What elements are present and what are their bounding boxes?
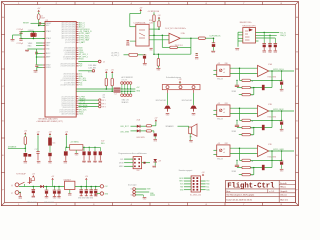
gyro sensor nick inner marks: [219, 109, 222, 112]
ground roll out cap: [280, 88, 284, 90]
svg-text:MAX4617CUE+: MAX4617CUE+: [240, 21, 252, 24]
gyro sensor roll inner marks: [219, 69, 222, 72]
ground C18: [32, 193, 34, 196]
gyro sensor gier body: [217, 145, 230, 157]
junction LDO input: [66, 147, 68, 149]
frame column ticks bottom: [37, 203, 39, 206]
wire crystal bottom stub: [32, 37, 34, 39]
resistor R16 track filter: [129, 53, 138, 56]
svg-text:AREF: AREF: [46, 56, 51, 59]
wire roll sensor to opamp minus: [230, 67, 258, 69]
IC4 right pin wire 2: [256, 34, 277, 36]
svg-text:R32: R32: [225, 143, 228, 145]
IC1 ATMEGA644 body: [45, 22, 76, 118]
bolt bar pad 2: [179, 86, 182, 89]
wire switch node: [24, 184, 26, 187]
wire nick feedback left: [240, 119, 242, 121]
wire roll row3 right: [250, 94, 253, 96]
svg-text:(INT1/TXD1)PD3: (INT1/TXD1)PD3: [64, 76, 76, 78]
power out GND pad: [100, 192, 103, 195]
svg-text:RESET: RESET: [23, 23, 30, 25]
svg-text:(SCL/PCINT16)PC0: (SCL/PCINT16)PC0: [62, 96, 76, 98]
header SV1 right wires: [200, 181, 205, 190]
wire C1-C2 vertical: [20, 32, 22, 39]
wire roll row2 right: [250, 87, 272, 89]
frame outer border: [1, 2, 298, 206]
svg-text:(OC0B/SS)PB4: (OC0B/SS)PB4: [65, 52, 76, 54]
ACC pad stubs bottom: [121, 91, 123, 94]
+5V arrow out: [85, 178, 87, 180]
+5V arrow LEDs: [155, 119, 157, 121]
diode D1: [40, 185, 43, 188]
Druckregler pad 1: [133, 188, 136, 191]
resistor R22 to gnd: [157, 59, 159, 67]
IC4 right pin wire 1: [256, 32, 280, 34]
ground R22: [156, 67, 160, 69]
testpoint J4 circle: [98, 60, 101, 63]
capacitor C2: [19, 38, 22, 40]
svg-text:VREF: VREF: [232, 131, 237, 133]
IC1 left-side pin stubs: [43, 23, 45, 67]
svg-text:LED_ROT: LED_ROT: [120, 126, 129, 128]
svg-text:Datum:05.01.2008 11:23:20: Datum:05.01.2008 11:23:20: [226, 199, 252, 202]
+5V arrow R12: [111, 71, 113, 73]
wire bolt +5V stub: [179, 83, 181, 85]
+5V arrow R11: [105, 71, 107, 73]
pullup resistor R11: [105, 78, 107, 86]
svg-text:ENC-03: ENC-03: [217, 158, 223, 160]
wire +5V pressure down: [140, 11, 142, 13]
wire power bus lower: [76, 90, 113, 92]
svg-text:J4: J4: [103, 61, 105, 63]
LED2 green: [137, 129, 140, 132]
speaker symbol: [189, 127, 192, 134]
ACC pad row bottom: [121, 94, 124, 97]
testpoint SERVO circle: [92, 70, 94, 72]
resistor roll R40c: [242, 93, 251, 95]
svg-text:MOSI: MOSI: [179, 178, 184, 180]
svg-text:Von Microkopter.1.33,Hauptplat: Von Microkopter.1.33,Hauptplat: [226, 194, 254, 197]
wire track filter out: [138, 54, 145, 56]
svg-text:22k: 22k: [103, 97, 106, 99]
svg-text:C2 22pF: C2 22pF: [17, 43, 23, 45]
pressure sensor MPX4115 body: [136, 24, 149, 46]
feedback resistor gier R42a: [242, 159, 251, 161]
frame corner bevels: [1, 2, 4, 5]
capacitor C15 electrolytic: [48, 138, 52, 146]
svg-text:L4: L4: [115, 94, 117, 96]
ground bolt left: [166, 112, 170, 114]
junction VREF rail pin2: [153, 35, 155, 37]
svg-text:SDA_N: SDA_N: [280, 34, 286, 37]
capacitor nick hp: [235, 124, 239, 126]
svg-text:GYRO_NICK: GYRO_NICK: [273, 109, 284, 111]
svg-text:(OC3B/SCK)PB7: (OC3B/SCK)PB7: [64, 59, 76, 61]
wire VCC horizontal: [39, 25, 45, 27]
wire gier feedback right: [250, 159, 281, 161]
header SV2 left labels: [119, 159, 124, 168]
wire +5V pressure horiz: [130, 12, 141, 14]
+5V arrow T1: [32, 175, 34, 177]
junction VREF rail bottom: [153, 53, 155, 55]
wire gier row3 left: [239, 174, 242, 176]
IC1 right-side pin stubs: [76, 23, 78, 114]
ground LED row: [153, 138, 157, 140]
junction roll output: [281, 70, 283, 72]
pressure sensor inner marks: [139, 29, 145, 31]
wire bus to pads upper: [120, 88, 135, 90]
+5V arrow header: [202, 174, 204, 176]
wire Druckregler gnd: [142, 195, 144, 197]
bolt bar body: [162, 85, 200, 90]
gyro sensor gier inner marks: [219, 149, 222, 152]
wire drop cap C23: [274, 38, 276, 43]
junctions on pad bus: [121, 88, 122, 89]
junction cap C18: [33, 186, 35, 188]
svg-text:SCL: SCL: [206, 186, 209, 188]
svg-text:X Y Z T: X Y Z T: [122, 79, 128, 81]
header SV2 right component: [143, 162, 145, 164]
ground C17: [37, 160, 41, 162]
capacitor bank C26: [89, 147, 90, 148]
pressure pin1 wire: [149, 28, 159, 30]
wire bolt right down: [193, 90, 195, 93]
+5V arrow pressure: [140, 9, 142, 11]
wire bus to R22: [157, 54, 159, 58]
svg-text:4k7: 4k7: [251, 128, 254, 130]
testpoint RESET circle: [39, 22, 41, 24]
wire +5V pressure vert: [129, 13, 131, 26]
svg-text:Erweiterungsport: Erweiterungsport: [179, 169, 193, 172]
ground LED D2: [152, 165, 156, 167]
wire roll row3 left: [239, 94, 242, 96]
svg-text:SP 1: SP 1: [102, 100, 105, 102]
svg-text:5,1 MPX4115A: 5,1 MPX4115A: [133, 21, 146, 24]
svg-text:RXD0: RXD0: [79, 59, 84, 61]
wire R11 top: [105, 73, 107, 78]
ground C21b: [58, 194, 60, 197]
capacitor roll mid blob: [262, 85, 265, 90]
svg-text:(TDI/PCINT21)PC5: (TDI/PCINT21)PC5: [62, 107, 75, 109]
LED D2 bottom: [153, 159, 157, 162]
wire gier sensor to opamp minus: [230, 147, 258, 149]
svg-text:SPEAKER: SPEAKER: [166, 125, 175, 128]
header SV1 pads: [193, 177, 199, 190]
+5V arrow C15: [49, 133, 51, 135]
svg-text:GND3: GND3: [46, 67, 51, 69]
wire GND pad: [97, 193, 101, 195]
capacitor C19: [45, 189, 49, 191]
junction R11 bus: [106, 88, 108, 90]
gyro sensor nick body: [217, 105, 230, 117]
resistor R14: [146, 130, 151, 132]
capacitor C3 AVCC: [35, 51, 38, 53]
wire nick feedback right: [250, 119, 281, 121]
junction VCC: [38, 25, 40, 27]
header SV2 body: [133, 157, 142, 169]
+5V arrow R15 column: [24, 132, 26, 134]
svg-text:+5V (REG): +5V (REG): [70, 141, 79, 143]
wire roll feedback left: [240, 79, 242, 81]
ACC pad stubs top: [121, 84, 123, 89]
ground C19: [46, 194, 48, 197]
svg-text:L1: L1: [41, 15, 43, 17]
wire roll sensor to opamp plus: [230, 73, 258, 75]
resistor R20 1M: [158, 21, 160, 27]
output resistor R23: [198, 37, 205, 39]
wire gier output: [269, 150, 294, 152]
resistor gier R42b: [242, 166, 251, 168]
svg-text:MOSI: MOSI: [119, 162, 124, 164]
svg-text:Druckregler: Druckregler: [128, 183, 137, 186]
wire VREF rail vertical: [153, 12, 155, 15]
ground C30: [144, 59, 146, 64]
svg-text:Bau:: Bau:: [226, 191, 231, 193]
wire nick sensor to opamp plus: [230, 113, 258, 115]
resistor nick R41c: [242, 133, 251, 135]
LDO IC6 body: [70, 145, 83, 151]
wire gier row3 right: [250, 174, 253, 176]
wire crystal top stub: [32, 32, 34, 34]
svg-text:VREF: VREF: [232, 171, 237, 173]
svg-text:(TMS/PCINT19)PC3: (TMS/PCINT19)PC3: [61, 103, 75, 105]
resistor R13: [146, 125, 151, 127]
svg-text:(ICP/MOSI)PB5: (ICP/MOSI)PB5: [64, 54, 75, 56]
svg-text:C1 22pF: C1 22pF: [17, 29, 23, 31]
wire feedback left: [162, 46, 170, 48]
capacitor C15b blob: [48, 153, 51, 156]
ground C15: [48, 160, 52, 162]
IC4 body: [243, 28, 256, 44]
+5V arrow R20: [158, 17, 160, 19]
small cap right of bus: [195, 53, 198, 55]
IC1 right-side pin names: [59, 21, 75, 115]
wire LED1 to R13: [140, 125, 146, 127]
svg-text:(TOSC2/PCINT23)PC7: (TOSC2/PCINT23)PC7: [59, 112, 75, 114]
gyro sensor nick left stubs: [213, 109, 216, 111]
svg-text:MISO: MISO: [119, 166, 124, 168]
wire to testpoint J4: [78, 61, 98, 63]
svg-text:PD7: PD7: [79, 66, 83, 68]
IC4 right pin wire 3: [256, 37, 276, 39]
wire R20 top: [158, 19, 160, 21]
ground C21: [263, 47, 265, 50]
op-amp gier triangle: [258, 145, 269, 156]
wire roll feedback right: [250, 79, 281, 81]
ground speaker: [189, 140, 193, 142]
bolt bar pad 3: [192, 86, 195, 89]
wire XTAL1: [21, 31, 45, 33]
frame column ticks top: [37, 2, 39, 5]
svg-text:Flight-Ctrl: Flight-Ctrl: [227, 183, 275, 191]
svg-text:1,0 V_DC / 650 1013hPa: 1,0 V_DC / 650 1013hPa: [165, 28, 187, 30]
wire battery main: [19, 186, 40, 188]
ground gier out cap: [280, 168, 284, 170]
svg-text:1.24/L.MIN: 1.24/L.MIN: [88, 67, 97, 69]
svg-text:R30: R30: [225, 63, 228, 65]
ground C16: [24, 160, 28, 162]
svg-text:(TCK/PCINT18)PC2: (TCK/PCINT18)PC2: [61, 101, 75, 103]
+5V supply arrow top-left: [38, 10, 40, 12]
output caps bank: [80, 186, 82, 188]
ground nick out cap: [280, 128, 284, 130]
wire R11 bottom: [105, 86, 107, 89]
junction cap C19: [46, 186, 48, 188]
svg-text:4k7: 4k7: [251, 175, 254, 177]
feedback resistor R21: [170, 46, 178, 48]
resistor R19 divider: [153, 15, 155, 22]
wire bus to pads lower: [120, 90, 135, 92]
Druckregler wire 2: [135, 191, 149, 193]
junction cap C20: [54, 186, 56, 188]
svg-text:SL_2X5G_2,54: SL_2X5G_2,54: [190, 194, 201, 196]
junction IC4 wire1: [264, 32, 265, 33]
svg-text:4k7: 4k7: [251, 135, 254, 137]
svg-text:(TDO/PCINT20)PC4: (TDO/PCINT20)PC4: [61, 105, 75, 107]
svg-text:GND GND GND GND: GND GND GND GND: [78, 197, 94, 199]
svg-text:J_BATT: J_BATT: [79, 41, 86, 44]
capacitor roll hp: [235, 84, 239, 86]
wire IC4 left down: [237, 32, 239, 47]
wire AREF stub: [37, 56, 43, 58]
IC1 right-side net labels: [79, 21, 92, 115]
svg-text:(CLKO/T1)PB1: (CLKO/T1)PB1: [65, 42, 76, 44]
wire R12 top: [111, 73, 113, 78]
ground battery minus: [19, 196, 22, 198]
wire C17 down: [37, 153, 39, 160]
Druckregler pad 2: [133, 191, 136, 194]
header SV2 pads: [134, 158, 140, 167]
svg-text:4k7: 4k7: [251, 88, 254, 90]
capacitor LED row blob: [154, 133, 157, 136]
capacitor C23: [274, 43, 278, 45]
pressure pin2 wire: [149, 34, 169, 36]
svg-text:LBusse: LBusse: [280, 195, 288, 197]
wire track filter in: [124, 54, 129, 56]
testpoint J6 circle: [99, 99, 101, 101]
ferrite L4 bars: [114, 88, 121, 89]
capacitor C20: [53, 189, 57, 191]
wire power bus upper: [76, 88, 113, 90]
wire roll output cap down: [281, 71, 283, 81]
wire VREF stub: [36, 42, 43, 44]
title block outline: [226, 181, 296, 203]
svg-text:+ MEGA644-MIT-20MHZ (OPT): + MEGA644-MIT-20MHZ (OPT): [36, 120, 63, 123]
title block row line 2: [226, 192, 296, 194]
svg-text:IC1: IC1: [46, 20, 49, 22]
switch S1 lever: [19, 182, 25, 185]
gyro sensor gier left stubs: [213, 149, 216, 151]
svg-text:GND 10uF/16: GND 10uF/16: [27, 202, 37, 204]
ground C24: [64, 160, 68, 162]
wire cap C10 down: [213, 38, 215, 42]
ACC pad row top: [121, 82, 124, 85]
inductor L1: [37, 14, 40, 20]
voltage regulator gnd pin: [69, 190, 71, 194]
svg-text:PC5: PC5: [79, 85, 83, 87]
wire nick sensor to opamp minus: [230, 107, 258, 109]
capacitor gier hp: [235, 164, 239, 166]
ground bolt right: [192, 112, 196, 114]
gyro sensor roll left stubs: [213, 69, 216, 71]
junction crystal top: [33, 31, 35, 33]
pullup resistor R12: [111, 78, 113, 86]
wire gier sensor to opamp plus: [230, 153, 258, 155]
ground LDO: [75, 152, 79, 154]
ground AGND symbol: [25, 49, 29, 51]
wire +5V out stub: [85, 180, 87, 187]
title block row line 1: [226, 188, 296, 190]
junction R20 pin1: [158, 28, 160, 30]
title block right row line: [279, 184, 295, 186]
ground IC4: [235, 48, 239, 50]
pressure sensor cap left: [127, 40, 130, 42]
wire diode to regulator: [44, 186, 65, 188]
bolt bar pad 1: [166, 86, 169, 89]
svg-text:XTAL2: XTAL2: [46, 37, 51, 40]
svg-text:PA.6: PA.6: [28, 44, 32, 47]
resistor nick R41b: [242, 126, 251, 128]
wire DISTANCE: [8, 147, 25, 149]
header SV1 left wires: [184, 178, 191, 190]
frame row ticks right: [296, 34, 299, 36]
wire regulator output rail: [75, 186, 100, 188]
svg-text:22k: 22k: [103, 95, 106, 97]
capacitor roll out: [280, 80, 284, 82]
svg-text:4k7: 4k7: [251, 168, 254, 170]
Druckregler wire 1: [135, 188, 146, 190]
wire GND3 stub: [37, 67, 43, 69]
capacitor bank C25: [83, 147, 84, 148]
svg-text:GYRO_GIER: GYRO_GIER: [273, 149, 284, 151]
wire speaker: [178, 125, 189, 127]
wire LED_ROT: [131, 125, 138, 127]
capacitor C21b: [57, 189, 61, 191]
junction DISTANCE: [25, 148, 27, 150]
wire sensor cap: [130, 40, 136, 42]
Druckregler wire 3: [135, 194, 143, 196]
wire output to label: [205, 37, 213, 39]
svg-text:VREF: VREF: [232, 91, 237, 93]
capacitor gier mid blob: [262, 165, 265, 170]
svg-text:BOLT-HOLE2: BOLT-HOLE2: [182, 100, 192, 102]
op-amp roll triangle: [258, 65, 269, 76]
feedback resistor nick R41a: [242, 119, 251, 121]
capacitor C21: [262, 43, 266, 45]
capacitor C18: [32, 189, 36, 191]
wire LDO output rail: [83, 146, 100, 148]
wire AVCC vertical: [36, 49, 38, 65]
svg-text:LM2940T: LM2940T: [64, 179, 71, 181]
wire LDO input: [66, 146, 69, 148]
battery plus pad: [15, 183, 19, 187]
capacitor C16 blob: [24, 153, 28, 157]
wire roll output: [269, 70, 294, 72]
wire nick row2 left: [237, 127, 242, 129]
wire +5V bottom 2: [37, 135, 39, 151]
title block row2 divider: [267, 189, 269, 193]
junction IC4 wire2: [269, 35, 270, 36]
wire to testpoint J6: [78, 99, 98, 101]
junction crystal bottom: [33, 38, 35, 40]
svg-text:GND 10uF/16: GND 10uF/16: [44, 202, 54, 204]
capacitor bank C28: [99, 147, 101, 151]
wire RESET: [31, 22, 46, 24]
svg-text:Erstellt:: Erstellt:: [280, 182, 287, 185]
wire +5V bottom 3: [65, 135, 67, 147]
svg-text:(RXD0/PCINT24)PD0: (RXD0/PCINT24)PD0: [60, 63, 75, 65]
IC4 right pin stub 4: [256, 40, 259, 42]
